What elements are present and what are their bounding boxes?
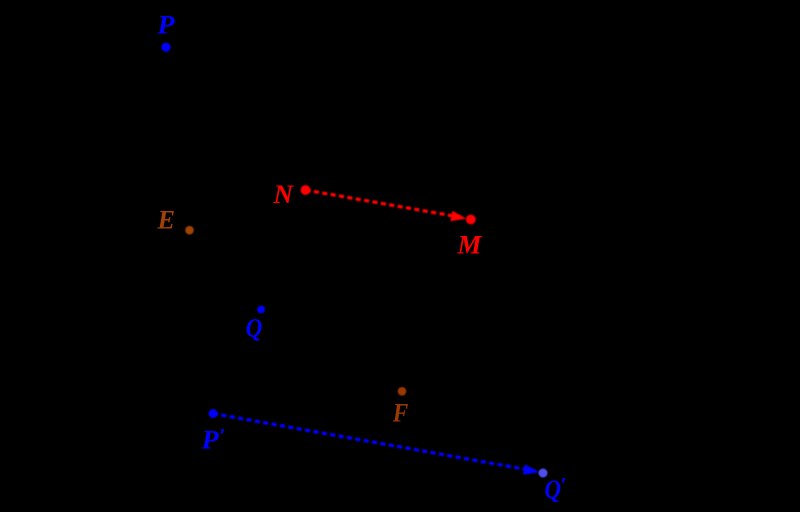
- svg-text:F: F: [392, 399, 408, 428]
- svg-text:P: P: [201, 426, 220, 455]
- svg-text:E: E: [156, 206, 175, 235]
- svg-text:Q: Q: [246, 314, 263, 343]
- svg-text:M: M: [456, 231, 482, 260]
- svg-text:′: ′: [560, 473, 566, 498]
- svg-text:′: ′: [219, 424, 225, 449]
- svg-text:Q: Q: [545, 475, 562, 504]
- svg-text:N: N: [272, 180, 294, 209]
- svg-text:P: P: [156, 11, 175, 40]
